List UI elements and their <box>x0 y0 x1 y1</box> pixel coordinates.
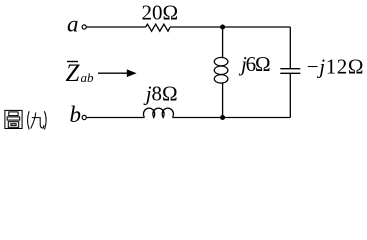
inductor L j6ohm (middle branch) <box>214 27 270 118</box>
node bottom junction <box>220 115 225 120</box>
node top junction <box>220 25 225 30</box>
svg-text:Z: Z <box>66 60 81 87</box>
resistor R 20ohm <box>142 1 179 32</box>
wire bottom-left <box>86 117 144 119</box>
impedance label Zab with overbar <box>66 60 95 87</box>
wire top-right <box>170 26 290 28</box>
wire top-left <box>86 26 145 28</box>
terminal a <box>67 12 86 37</box>
terminal b <box>70 102 87 127</box>
svg-text:ab: ab <box>81 70 95 85</box>
svg-text:a: a <box>67 12 79 37</box>
svg-text:j6Ω: j6Ω <box>238 52 270 76</box>
arrow pointing right <box>98 69 137 77</box>
wire bottom-right <box>173 117 290 119</box>
svg-text:b: b <box>70 102 82 127</box>
inductor L j8ohm (bottom wire) <box>143 81 178 117</box>
svg-text:−j12Ω: −j12Ω <box>307 55 364 79</box>
svg-text:j8Ω: j8Ω <box>143 81 178 105</box>
figure caption 圖(九) <box>5 110 46 129</box>
capacitor C -j12ohm (right branch) <box>280 27 364 118</box>
svg-text:20Ω: 20Ω <box>142 1 179 25</box>
